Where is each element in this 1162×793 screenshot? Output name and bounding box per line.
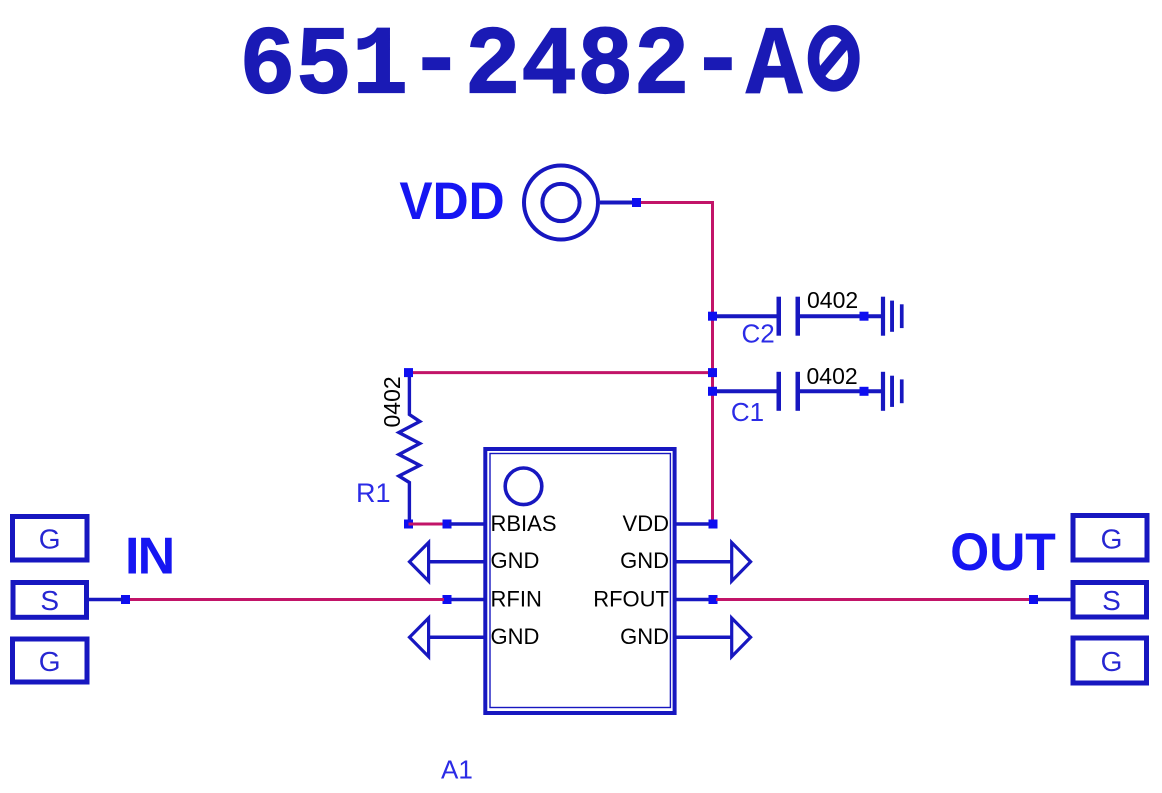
svg-text:RBIAS: RBIAS <box>491 511 557 536</box>
ground (right of C2) <box>881 297 904 336</box>
svg-text:R1: R1 <box>356 478 391 508</box>
wire GND pin stub right lower <box>675 636 732 640</box>
svg-text:651-2482-A: 651-2482-A <box>239 9 803 122</box>
port box S (left) <box>13 583 87 618</box>
junction IN port <box>121 595 130 604</box>
port box G (left top) <box>13 517 88 561</box>
svg-text:OUT: OUT <box>950 521 1056 581</box>
wire GND pin stub right upper <box>675 560 732 564</box>
junction R1 bottom <box>404 520 413 529</box>
svg-text:RFOUT: RFOUT <box>593 587 669 612</box>
junction RFOUT <box>709 595 718 604</box>
junction RBIAS <box>443 520 452 529</box>
wire RFIN pin stub <box>449 598 485 602</box>
port box G (right bottom) <box>1073 638 1147 683</box>
IC pin-1 indicator circle <box>505 468 542 505</box>
IC A1 inner border <box>490 454 670 708</box>
power connector VDD (concentric circles) <box>524 166 598 240</box>
junction C1 left <box>708 387 717 396</box>
capacitor C2 <box>714 297 881 336</box>
IC A1 outer body <box>485 449 674 713</box>
svg-text:G: G <box>39 524 61 555</box>
port box S (right) <box>1073 583 1147 618</box>
svg-text:0402: 0402 <box>807 287 858 313</box>
wire IN net (crimson) <box>128 598 444 601</box>
title 651-2482-A0 <box>239 9 854 122</box>
wire RFOUT pin stub <box>675 598 713 602</box>
svg-text:C2: C2 <box>742 318 775 348</box>
wire RBIAS net horizontal (R1 top to VDD vertical) <box>409 371 713 374</box>
port box G (right top) <box>1073 516 1147 561</box>
wire GND pin stub left lower <box>429 636 485 640</box>
junction RFIN <box>443 595 452 604</box>
wire S port stub (left) <box>89 598 123 602</box>
svg-text:VDD: VDD <box>623 511 669 536</box>
svg-text:S: S <box>40 585 59 616</box>
svg-text:GND: GND <box>491 548 540 573</box>
svg-text:0402: 0402 <box>379 376 405 427</box>
junction R1 top <box>404 368 413 377</box>
GND arrow right upper <box>732 543 751 582</box>
wire RBIAS pin stub <box>449 522 485 526</box>
svg-text:0402: 0402 <box>807 363 858 389</box>
svg-text:G: G <box>1101 524 1123 555</box>
junction C2 right <box>860 312 869 321</box>
svg-text:GND: GND <box>620 548 669 573</box>
svg-text:GND: GND <box>491 624 540 649</box>
wire VDD pin stub <box>675 522 713 526</box>
junction C1 right <box>860 387 869 396</box>
junction VDD pin <box>709 520 718 529</box>
GND arrow left upper <box>410 543 429 582</box>
svg-text:IN: IN <box>125 528 173 586</box>
svg-text:A1: A1 <box>441 754 473 784</box>
port box G (left bottom) <box>13 639 88 682</box>
junction OUT port <box>1029 595 1038 604</box>
svg-text:S: S <box>1102 585 1121 616</box>
svg-text:G: G <box>1101 646 1123 677</box>
wire S port stub (right) <box>1036 598 1071 602</box>
svg-text:VDD: VDD <box>399 171 504 231</box>
GND arrow right lower <box>732 618 751 657</box>
svg-text:GND: GND <box>620 624 669 649</box>
GND arrow left lower <box>410 618 429 657</box>
wire GND pin stub left upper <box>429 560 485 564</box>
svg-text:G: G <box>39 646 61 677</box>
wire VDD connector stub <box>600 201 634 205</box>
svg-text:C1: C1 <box>731 397 764 427</box>
wire OUT net (crimson) <box>716 598 1031 601</box>
ground (right of C1) <box>881 372 904 411</box>
resistor R1 <box>399 374 420 523</box>
svg-text:RFIN: RFIN <box>491 587 542 612</box>
junction C2 left <box>708 312 717 321</box>
wire R1 bottom to RBIAS pin (crimson) <box>409 523 448 526</box>
capacitor C1 <box>714 372 881 411</box>
junction at VDD connector <box>632 198 641 207</box>
junction mid (vertical VDD line / R1 horizontal) <box>708 368 717 377</box>
wire VDD net (crimson L: right then down to IC VDD pin) <box>638 203 713 523</box>
